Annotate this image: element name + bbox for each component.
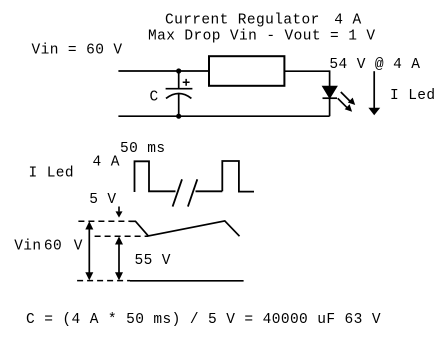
dashed level 60 V top <box>78 220 130 222</box>
wire capacitor top lead <box>178 71 180 89</box>
waveform ground line <box>130 280 244 282</box>
svg-text:Vin: Vin <box>14 238 41 254</box>
svg-text:60: 60 <box>44 238 62 254</box>
LED light ray arrow 1 <box>341 92 355 105</box>
svg-text:55 V: 55 V <box>135 253 171 269</box>
waveform axis break slash 2 <box>188 179 197 206</box>
node junction dot top <box>176 68 181 73</box>
waveform axis break slash 1 <box>173 179 182 206</box>
dashed level 0 V <box>77 280 130 282</box>
5 V pointer arrow <box>116 207 123 218</box>
waveform baseline segment <box>196 190 223 192</box>
svg-text:C = (4 A * 50 ms) / 5 V = 4000: C = (4 A * 50 ms) / 5 V = 40000 uF 63 V <box>26 312 381 328</box>
node junction dot bottom <box>176 114 181 119</box>
LED D1 cathode bar <box>323 97 338 99</box>
capacitor C curved plate <box>166 94 191 99</box>
LED light ray arrow 2 <box>338 98 352 111</box>
dashed level 55 V <box>95 235 148 237</box>
dimension arrow 55 V <box>115 236 123 280</box>
svg-text:I Led: I Led <box>29 166 75 182</box>
wire capacitor bottom lead <box>178 94 180 116</box>
svg-text:Max Drop Vin - Vout = 1 V: Max Drop Vin - Vout = 1 V <box>148 29 376 45</box>
waveform I Led pulse 2 <box>222 161 254 192</box>
svg-text:I Led: I Led <box>390 88 436 104</box>
waveform I Led pulse 1 <box>135 161 176 192</box>
svg-text:4 A: 4 A <box>93 154 120 170</box>
regulator box U1 <box>209 56 284 86</box>
wire regulator output <box>284 70 329 72</box>
capacitor C top plate <box>166 88 193 90</box>
svg-text:Current Regulator: Current Regulator <box>165 12 320 28</box>
svg-text:54 V @ 4 A: 54 V @ 4 A <box>329 57 420 73</box>
svg-text:C: C <box>150 90 159 106</box>
wire top input <box>118 70 208 72</box>
wire bottom return <box>118 115 329 117</box>
LED D1 triangle <box>323 86 338 98</box>
I Led current arrow <box>368 71 380 115</box>
svg-text:Vin = 60 V: Vin = 60 V <box>32 43 123 59</box>
wire LED cathode <box>329 98 331 116</box>
svg-text:4 A: 4 A <box>334 12 361 28</box>
Vin ripple waveform <box>130 221 240 236</box>
svg-text:V: V <box>74 238 83 254</box>
dimension arrow 60 V <box>85 221 93 280</box>
svg-text:50 ms: 50 ms <box>120 141 166 157</box>
capacitor plus polarity mark <box>183 79 190 86</box>
wire LED anode <box>329 70 331 86</box>
svg-text:5 V: 5 V <box>89 192 116 208</box>
